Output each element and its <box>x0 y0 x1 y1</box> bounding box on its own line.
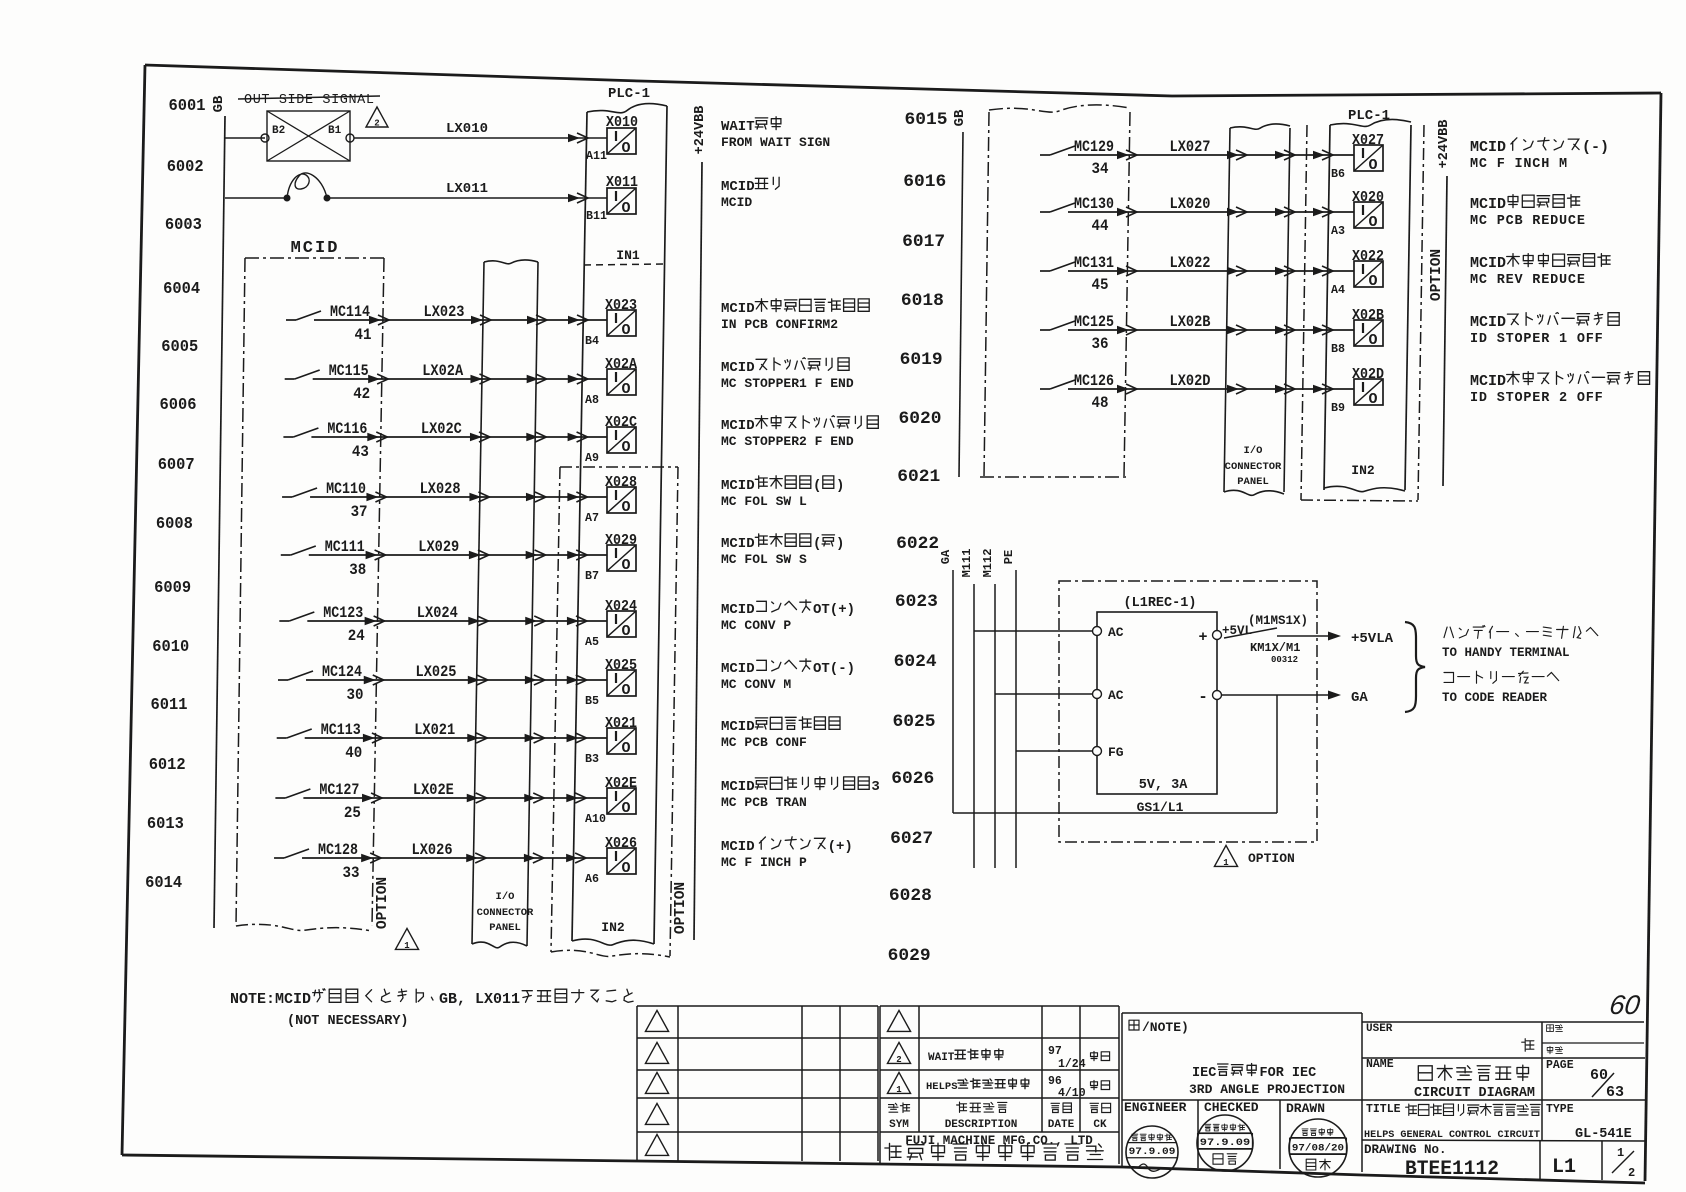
svg-text:97.9.09: 97.9.09 <box>1200 1137 1250 1149</box>
svg-text:DATE: DATE <box>1048 1119 1075 1131</box>
svg-text:LX02C: LX02C <box>421 420 462 438</box>
svg-text:5V, 3A: 5V, 3A <box>1139 778 1189 793</box>
svg-text:LX024: LX024 <box>417 604 458 622</box>
svg-text:MCID: MCID <box>1470 139 1506 156</box>
svg-text:NAME: NAME <box>1366 1058 1394 1071</box>
svg-text:A5: A5 <box>585 635 599 649</box>
svg-text:A6: A6 <box>585 872 599 886</box>
svg-text:1: 1 <box>404 941 410 951</box>
svg-text:(: ( <box>813 536 821 552</box>
svg-text:AC: AC <box>1108 625 1124 640</box>
svg-text:1: 1 <box>1223 858 1229 868</box>
svg-text:CIRCUIT DIAGRAM: CIRCUIT DIAGRAM <box>1414 1085 1535 1101</box>
svg-text:B8: B8 <box>1331 342 1345 356</box>
svg-text:6001: 6001 <box>169 97 206 116</box>
svg-text:M111: M111 <box>960 549 974 578</box>
svg-text:FG: FG <box>1108 745 1124 760</box>
svg-text:ID STOPER 1 OFF: ID STOPER 1 OFF <box>1470 332 1604 347</box>
svg-text:OPTION: OPTION <box>375 877 391 929</box>
svg-text:TO HANDY TERMINAL: TO HANDY TERMINAL <box>1442 646 1570 660</box>
svg-text:2: 2 <box>1628 1166 1635 1180</box>
svg-text:B2: B2 <box>272 125 285 137</box>
svg-text:LX029: LX029 <box>418 538 459 556</box>
svg-text:IN1: IN1 <box>616 248 640 263</box>
svg-text:34: 34 <box>1092 160 1109 178</box>
svg-text:MCID: MCID <box>721 719 755 735</box>
svg-text:MCID: MCID <box>1470 196 1506 213</box>
svg-text:6023: 6023 <box>895 592 938 612</box>
svg-text:MC FOL SW L: MC FOL SW L <box>721 494 807 509</box>
svg-text:6021: 6021 <box>897 467 940 487</box>
svg-text:MCID: MCID <box>721 179 755 195</box>
svg-text:A7: A7 <box>585 511 599 525</box>
svg-text:6018: 6018 <box>901 291 944 311</box>
svg-text:X025: X025 <box>605 658 637 674</box>
svg-text:LX022: LX022 <box>1170 254 1211 272</box>
svg-text:MC114: MC114 <box>330 303 370 321</box>
svg-text:37: 37 <box>351 503 368 521</box>
svg-text:LX023: LX023 <box>424 303 465 321</box>
svg-text:IN2: IN2 <box>601 920 625 935</box>
svg-text:97/08/20: 97/08/20 <box>1292 1142 1344 1154</box>
svg-text:CK: CK <box>1093 1119 1107 1131</box>
svg-text:GL-541E: GL-541E <box>1575 1127 1632 1142</box>
svg-text:6017: 6017 <box>902 232 945 252</box>
svg-text:ID STOPER 2 OFF: ID STOPER 2 OFF <box>1470 391 1604 406</box>
svg-text:X02C: X02C <box>605 415 637 431</box>
svg-text:O: O <box>621 623 630 640</box>
svg-text:MCID: MCID <box>1470 314 1506 331</box>
svg-text:A11: A11 <box>586 149 607 163</box>
svg-text:6025: 6025 <box>893 712 936 732</box>
svg-text:3: 3 <box>871 779 879 795</box>
svg-text:6022: 6022 <box>896 534 939 554</box>
svg-text:(NOT NECESSARY): (NOT NECESSARY) <box>287 1014 409 1029</box>
svg-text:6009: 6009 <box>154 579 191 598</box>
svg-text:33: 33 <box>343 864 360 882</box>
svg-text:PANEL: PANEL <box>489 922 521 934</box>
svg-text:MCID: MCID <box>721 602 755 618</box>
svg-text:MC123: MC123 <box>323 604 363 622</box>
svg-text:2: 2 <box>896 1055 901 1065</box>
svg-text:6011: 6011 <box>151 696 188 715</box>
svg-text:6015: 6015 <box>905 110 948 130</box>
svg-text:OPTION: OPTION <box>1429 249 1445 301</box>
svg-text:X027: X027 <box>1352 133 1384 149</box>
svg-text:I/O: I/O <box>496 891 515 903</box>
svg-text:B11: B11 <box>586 209 607 223</box>
svg-text:6028: 6028 <box>889 886 932 906</box>
svg-text:48: 48 <box>1092 394 1109 412</box>
svg-text:BTEE1112: BTEE1112 <box>1405 1158 1499 1181</box>
svg-text:): ) <box>836 536 844 552</box>
svg-text:O: O <box>621 499 630 516</box>
svg-text:LX028: LX028 <box>420 480 461 498</box>
svg-text:PLC-1: PLC-1 <box>608 86 650 102</box>
svg-text:X028: X028 <box>605 475 637 491</box>
svg-text:TITLE: TITLE <box>1366 1103 1401 1116</box>
svg-text:6005: 6005 <box>161 338 198 357</box>
svg-text:GB: GB <box>211 95 227 112</box>
svg-text:LX027: LX027 <box>1170 138 1211 156</box>
svg-text:MC PCB REDUCE: MC PCB REDUCE <box>1470 214 1586 229</box>
svg-text:45: 45 <box>1092 276 1109 294</box>
svg-text:MC125: MC125 <box>1074 313 1114 331</box>
svg-text:6010: 6010 <box>152 638 189 657</box>
svg-text:44: 44 <box>1092 217 1109 235</box>
svg-text:MC128: MC128 <box>318 841 358 859</box>
svg-text:6006: 6006 <box>160 396 197 415</box>
svg-text:O: O <box>621 381 630 398</box>
svg-text:O: O <box>621 740 630 757</box>
svg-text:3RD ANGLE PROJECTION: 3RD ANGLE PROJECTION <box>1189 1082 1345 1097</box>
svg-text:): ) <box>836 478 844 494</box>
svg-text:MC127: MC127 <box>319 781 359 799</box>
svg-text:GB: GB <box>952 109 968 126</box>
svg-text:GS1/L1: GS1/L1 <box>1137 800 1184 815</box>
svg-text:6024: 6024 <box>894 652 937 672</box>
svg-text:LX011: LX011 <box>446 181 488 197</box>
svg-text:X02A: X02A <box>605 357 637 373</box>
svg-text:A4: A4 <box>1331 283 1345 297</box>
svg-text:+24VBB: +24VBB <box>1437 120 1452 169</box>
svg-text:MC CONV P: MC CONV P <box>721 618 791 633</box>
svg-text:B5: B5 <box>585 694 599 708</box>
svg-text:B9: B9 <box>1331 401 1345 415</box>
svg-text:OUT SIDE SIGNAL: OUT SIDE SIGNAL <box>244 93 374 108</box>
svg-text:O: O <box>1368 273 1377 290</box>
svg-text:LX02B: LX02B <box>1170 313 1211 331</box>
svg-text:DESCRIPTION: DESCRIPTION <box>945 1119 1018 1131</box>
svg-text:97: 97 <box>1048 1045 1062 1058</box>
svg-text:4/10: 4/10 <box>1058 1087 1086 1100</box>
svg-text:LX026: LX026 <box>412 841 453 859</box>
svg-text:X026: X026 <box>605 836 637 852</box>
svg-text:(M1MS1X): (M1MS1X) <box>1248 614 1308 628</box>
svg-text:MC STOPPER2 F END: MC STOPPER2 F END <box>721 434 854 449</box>
svg-text:(: ( <box>813 478 821 494</box>
svg-text:PAGE: PAGE <box>1546 1059 1574 1072</box>
svg-text:60: 60 <box>1608 989 1642 1020</box>
svg-text:O: O <box>1368 332 1377 349</box>
svg-text:B6: B6 <box>1331 167 1345 181</box>
svg-text:IEC: IEC <box>1192 1066 1216 1081</box>
svg-text:MC STOPPER1 F END: MC STOPPER1 F END <box>721 376 854 391</box>
svg-text:DRAWN: DRAWN <box>1286 1101 1325 1116</box>
svg-text:X022: X022 <box>1352 249 1384 265</box>
svg-text:SYM: SYM <box>889 1119 909 1131</box>
svg-text:6016: 6016 <box>903 172 946 192</box>
svg-text:O: O <box>621 200 630 217</box>
svg-text:63: 63 <box>1606 1084 1624 1101</box>
svg-text:X023: X023 <box>605 298 637 314</box>
svg-text:B4: B4 <box>585 334 599 348</box>
svg-text:24: 24 <box>348 627 365 645</box>
svg-text:6003: 6003 <box>165 216 202 235</box>
svg-text:O: O <box>621 860 630 877</box>
svg-text:B3: B3 <box>585 752 599 766</box>
svg-text:O: O <box>1368 157 1377 174</box>
svg-text:(L1REC-1): (L1REC-1) <box>1124 596 1197 611</box>
svg-text:B7: B7 <box>585 569 599 583</box>
svg-text:DRAWING No.: DRAWING No. <box>1364 1143 1447 1157</box>
svg-text:MCID: MCID <box>721 661 755 677</box>
svg-text:IN PCB CONFIRM2: IN PCB CONFIRM2 <box>721 317 838 332</box>
svg-text:/NOTE): /NOTE) <box>1142 1020 1189 1035</box>
svg-text:MC126: MC126 <box>1074 372 1114 390</box>
svg-text:6008: 6008 <box>156 515 193 534</box>
svg-text:MCID: MCID <box>721 301 755 317</box>
svg-text:PE: PE <box>1002 550 1016 564</box>
svg-text:LX02A: LX02A <box>422 362 464 380</box>
svg-text:MCID: MCID <box>291 239 340 258</box>
svg-text:X010: X010 <box>606 115 638 131</box>
svg-text:42: 42 <box>353 385 370 403</box>
svg-text:MCID: MCID <box>721 839 755 855</box>
svg-text:MCID: MCID <box>721 478 755 494</box>
svg-text:OT(+): OT(+) <box>813 602 855 618</box>
svg-text:PLC-1: PLC-1 <box>1348 108 1390 124</box>
svg-text:WAIT: WAIT <box>928 1052 955 1064</box>
svg-text:MC F INCH M: MC F INCH M <box>1470 157 1568 172</box>
svg-text:MC PCB CONF: MC PCB CONF <box>721 735 807 750</box>
svg-text:MC124: MC124 <box>322 663 362 681</box>
svg-text:M112: M112 <box>981 549 995 578</box>
svg-text:6007: 6007 <box>158 456 195 475</box>
svg-text:CHECKED: CHECKED <box>1204 1100 1259 1115</box>
svg-text:MCID: MCID <box>1470 373 1506 390</box>
svg-text:OT(-): OT(-) <box>813 661 855 677</box>
svg-text:OPTION: OPTION <box>673 882 689 934</box>
svg-text:LX025: LX025 <box>416 663 457 681</box>
svg-text:LX010: LX010 <box>446 121 488 137</box>
svg-text:O: O <box>621 439 630 456</box>
svg-text:B1: B1 <box>328 125 342 137</box>
svg-text:+5VLA: +5VLA <box>1351 631 1394 647</box>
svg-text:OPTION: OPTION <box>1248 851 1295 866</box>
svg-text:MC FOL SW S: MC FOL SW S <box>721 552 807 567</box>
svg-text:40: 40 <box>345 744 362 762</box>
svg-text:A10: A10 <box>585 812 606 826</box>
svg-text:FOR IEC: FOR IEC <box>1260 1066 1317 1081</box>
svg-text:6020: 6020 <box>899 409 942 429</box>
svg-text:O: O <box>621 140 630 157</box>
svg-text:IN2: IN2 <box>1351 463 1375 478</box>
svg-text:6027: 6027 <box>890 829 933 849</box>
svg-text:6029: 6029 <box>888 946 931 966</box>
svg-text:MC115: MC115 <box>329 362 369 380</box>
svg-text:MC PCB TRAN: MC PCB TRAN <box>721 795 807 810</box>
svg-text:1: 1 <box>896 1085 902 1095</box>
svg-text:2: 2 <box>374 119 379 129</box>
svg-text:30: 30 <box>347 686 364 704</box>
svg-text:O: O <box>621 800 630 817</box>
svg-text:MCID: MCID <box>721 536 755 552</box>
svg-text:6013: 6013 <box>147 815 184 834</box>
svg-text:6014: 6014 <box>145 874 182 893</box>
svg-text:LX020: LX020 <box>1170 195 1211 213</box>
svg-text:KM1X/M1: KM1X/M1 <box>1250 641 1300 655</box>
svg-text:36: 36 <box>1092 335 1109 353</box>
svg-text:25: 25 <box>344 804 361 822</box>
svg-text:HELPS: HELPS <box>926 1081 958 1093</box>
svg-text:38: 38 <box>349 561 366 579</box>
svg-text:6012: 6012 <box>149 756 186 775</box>
svg-text:43: 43 <box>352 443 369 461</box>
svg-text:00312: 00312 <box>1271 655 1298 665</box>
svg-text:+24VBB: +24VBB <box>693 106 708 155</box>
svg-text:O: O <box>621 682 630 699</box>
svg-text:X024: X024 <box>605 599 637 615</box>
svg-text:6004: 6004 <box>163 280 200 299</box>
svg-text:X02B: X02B <box>1352 308 1384 324</box>
svg-text:1/24: 1/24 <box>1058 1058 1086 1071</box>
svg-text:ENGINEER: ENGINEER <box>1124 1100 1187 1115</box>
svg-text:FROM WAIT SIGN: FROM WAIT SIGN <box>721 135 830 150</box>
svg-text:MC130: MC130 <box>1074 195 1114 213</box>
svg-text:MCID: MCID <box>721 779 755 795</box>
svg-text:GA: GA <box>939 549 953 564</box>
svg-text:+: + <box>1198 629 1207 646</box>
svg-text:X02E: X02E <box>605 776 637 792</box>
svg-text:O: O <box>1368 391 1377 408</box>
svg-text:A3: A3 <box>1331 224 1345 238</box>
svg-text:MC110: MC110 <box>326 480 366 498</box>
svg-text:LX02D: LX02D <box>1170 372 1211 390</box>
svg-text:MC131: MC131 <box>1074 254 1114 272</box>
svg-text:(+): (+) <box>828 839 853 855</box>
svg-text:O: O <box>1368 214 1377 231</box>
svg-text:O: O <box>621 322 630 339</box>
svg-text:(-): (-) <box>1582 139 1609 156</box>
svg-text:-: - <box>1198 688 1208 706</box>
svg-text:LX02E: LX02E <box>413 781 454 799</box>
svg-text:97.9.09: 97.9.09 <box>1129 1146 1176 1158</box>
svg-text:MC CONV M: MC CONV M <box>721 677 791 692</box>
svg-text:MC F INCH P: MC F INCH P <box>721 855 807 870</box>
svg-text:USER: USER <box>1366 1023 1393 1035</box>
svg-text:MCID: MCID <box>721 418 755 434</box>
svg-text:O: O <box>621 557 630 574</box>
svg-text:1: 1 <box>1617 1146 1624 1160</box>
svg-text:L1: L1 <box>1552 1156 1576 1179</box>
svg-text:I/O: I/O <box>1244 445 1263 457</box>
svg-text:41: 41 <box>355 326 372 344</box>
svg-text:X021: X021 <box>605 716 637 732</box>
svg-text:MC129: MC129 <box>1074 138 1114 156</box>
svg-text:CONNECTOR: CONNECTOR <box>477 907 534 919</box>
svg-text:MCID: MCID <box>721 360 755 376</box>
svg-text:6019: 6019 <box>900 350 943 370</box>
svg-text:LX021: LX021 <box>414 721 455 739</box>
svg-text:PANEL: PANEL <box>1237 476 1269 488</box>
svg-text:X02D: X02D <box>1352 367 1384 383</box>
svg-text:A9: A9 <box>585 451 599 465</box>
svg-text:GA: GA <box>1351 690 1368 706</box>
svg-text:GB, LX011: GB, LX011 <box>439 991 520 1008</box>
svg-text:WAIT: WAIT <box>721 119 755 135</box>
svg-text:MCID: MCID <box>1470 255 1506 272</box>
svg-text:TO CODE READER: TO CODE READER <box>1442 691 1548 705</box>
svg-text:MC113: MC113 <box>321 721 361 739</box>
svg-text:HELPS GENERAL CONTROL CIRCUIT: HELPS GENERAL CONTROL CIRCUIT <box>1364 1129 1540 1141</box>
svg-text:6002: 6002 <box>167 158 204 177</box>
svg-text:NOTE:MCID: NOTE:MCID <box>230 991 311 1008</box>
svg-text:MC111: MC111 <box>325 538 365 556</box>
svg-text:MC116: MC116 <box>327 420 367 438</box>
svg-text:X029: X029 <box>605 533 637 549</box>
svg-text:A8: A8 <box>585 393 599 407</box>
svg-text:MC REV REDUCE: MC REV REDUCE <box>1470 273 1586 288</box>
svg-text:X011: X011 <box>606 175 638 191</box>
svg-text:CONNECTOR: CONNECTOR <box>1225 461 1282 473</box>
svg-text:MCID: MCID <box>721 195 752 210</box>
svg-text:6026: 6026 <box>891 769 934 789</box>
svg-text:TYPE: TYPE <box>1546 1103 1574 1116</box>
svg-text:AC: AC <box>1108 688 1124 703</box>
svg-text:X020: X020 <box>1352 190 1384 206</box>
